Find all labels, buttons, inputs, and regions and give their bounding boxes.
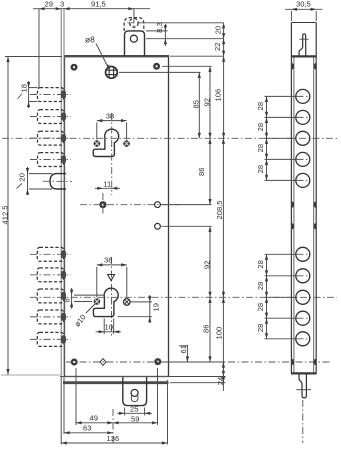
bottom dimension 136	[61, 376, 167, 445]
dimension 86 (lower cylinder axis to screw line)	[202, 297, 212, 362]
corner screw bottom-left	[71, 359, 78, 366]
dimension 11 (hub offset)	[95, 179, 120, 190]
lower cylinder fixing screw left	[94, 298, 101, 305]
svg-text:38: 38	[104, 256, 112, 265]
svg-text:3: 3	[60, 0, 64, 9]
dimension 8,3 (tab hole)	[146, 22, 168, 46]
svg-text:22: 22	[213, 43, 222, 51]
side view top hook (tab edge-on)	[299, 34, 309, 56]
body bottom edge	[60, 376, 169, 378]
svg-text:28: 28	[256, 303, 265, 311]
dimension 100 (lower axis to body bottom)	[215, 297, 225, 376]
dimension chain 28 x4 (top bolt group)	[256, 96, 296, 180]
extension line top-right screw to right	[162, 65, 212, 67]
svg-text:11: 11	[103, 179, 111, 188]
side bolt circle S6	[296, 247, 310, 261]
corner screw top-right	[153, 63, 160, 70]
dimension 92 (screw line to cylinder axis)	[203, 66, 212, 138]
side bolt circle S5	[296, 173, 310, 187]
svg-text:28: 28	[256, 282, 265, 290]
dimension 38 (lower cylinder screws)	[97, 256, 127, 297]
dimension 412,5 (left overall)	[1, 57, 63, 375]
latch bolt	[43, 174, 72, 189]
side bolt circle S7	[296, 269, 310, 283]
side bolt circle S4	[296, 152, 310, 166]
extension line screw head to right	[119, 71, 201, 73]
deadbolt B1 (hidden, top group)	[30, 88, 71, 102]
extension line upper rivet to right	[162, 204, 212, 206]
dimension 25 (bottom tab)	[117, 404, 152, 415]
dimension 22 (tab hole to body)	[213, 39, 225, 57]
deadbolt B6	[30, 268, 71, 282]
svg-text:86: 86	[202, 325, 211, 333]
svg-text:49: 49	[90, 414, 98, 423]
extension line tab hole centre to right	[146, 38, 224, 40]
dimension 106 (body top to cylinder axis)	[214, 56, 226, 138]
dimension 8 (screw vertical offset)	[62, 288, 104, 309]
corner screw top-left	[71, 64, 78, 71]
dimension 10 (stem width)	[96, 319, 122, 335]
dimension 30,5 (side width)	[285, 0, 323, 21]
top tab hidden position (dashed)	[124, 16, 144, 31]
vertical centerline lower cylinder	[111, 257, 113, 336]
svg-text:63: 63	[83, 424, 91, 433]
bottom dimension 49	[76, 368, 113, 425]
datum triangle marker	[108, 275, 115, 281]
side bolt circle S9	[296, 311, 310, 325]
dimension 20 (latch height)	[17, 167, 53, 195]
deadbolt B7	[37, 289, 66, 303]
vertical centerline upper cylinder	[111, 113, 113, 195]
svg-text:208,5: 208,5	[215, 200, 224, 219]
corner screw bottom-right	[154, 358, 161, 365]
side bolt circle S8	[296, 290, 310, 304]
top tab (solid)	[125, 31, 145, 56]
dimension 18 (bolt height)	[18, 81, 38, 108]
spindle hub (hatched)	[99, 201, 106, 208]
centerline below side view	[302, 400, 304, 443]
svg-text:28: 28	[256, 165, 265, 173]
dimension chain 28 x4 (bottom bolt group)	[256, 254, 296, 338]
deadbolt B5 (lower group)	[30, 247, 71, 261]
deadbolt B9	[30, 332, 71, 346]
bottom tab	[123, 377, 147, 406]
svg-text:ø8: ø8	[85, 35, 95, 45]
dimension 24 (screw row to faceplate bottom)	[216, 362, 225, 391]
extension line body top to right	[170, 55, 224, 57]
side bolt circle S3	[296, 131, 310, 145]
extension line bottom screw row to right	[163, 361, 226, 363]
extension line lower rivet to right	[162, 225, 212, 227]
dimension 20 (tab pitch, right)	[214, 23, 226, 39]
side view faceplate outer edges	[291, 23, 316, 374]
svg-text:38: 38	[106, 111, 114, 120]
upper cylinder fixing screw left	[94, 140, 101, 147]
top dimension line 29 / 3 / 91,5	[33, 0, 150, 88]
svg-text:20: 20	[214, 26, 223, 34]
dimension 19 (cylinder depth)	[118, 295, 161, 323]
lock body outline (front view)	[64, 56, 169, 377]
dimension 86 (cylinder axis to upper rivet)	[197, 138, 212, 204]
side view bottom hook (tab edge-on)	[296, 374, 311, 398]
svg-text:28: 28	[256, 324, 265, 332]
side bolt circle S1	[296, 89, 310, 103]
deadbolt B8	[30, 310, 71, 324]
dimension 92 (lower rivet to lower cylinder axis)	[203, 226, 212, 297]
extension line tab dashed-circle centre to right	[139, 22, 224, 24]
label ø8 with leader	[85, 35, 111, 70]
deadbolt B3	[30, 131, 71, 145]
side rivet bumps bottom	[291, 359, 316, 365]
svg-text:28: 28	[256, 102, 265, 110]
hub vertical centerline	[102, 193, 104, 216]
svg-text:61: 61	[179, 345, 188, 353]
svg-text:28: 28	[256, 123, 265, 131]
svg-text:106: 106	[214, 89, 223, 102]
centerline through hub	[80, 204, 180, 206]
svg-text:29: 29	[45, 0, 53, 9]
side rivet bumps mid lower	[291, 223, 316, 229]
side rivet bumps top	[291, 63, 316, 70]
side rivet bumps mid upper	[291, 201, 316, 207]
lower horizontal centerline (lower cylinder axis)	[30, 296, 337, 298]
label diameter leader to lower screw	[73, 304, 96, 329]
upper cylinder fixing screw right	[123, 140, 130, 147]
dimension 85 (head screw to cylinder axis)	[192, 72, 201, 138]
dimension 208,5 (cylinder spacing chain)	[215, 138, 225, 297]
dimension 61 (bolt to screw row)	[179, 345, 189, 362]
svg-text:86: 86	[197, 168, 206, 176]
centerline through bottom screws with diamond node	[66, 359, 330, 366]
svg-text:25: 25	[130, 404, 138, 413]
side view top edge (thick)	[291, 55, 317, 57]
svg-text:19: 19	[152, 303, 161, 311]
svg-text:30,5: 30,5	[296, 0, 311, 8]
svg-text:28: 28	[256, 144, 265, 152]
reference rivet lower (right)	[155, 223, 161, 229]
lower euro cylinder profile	[93, 288, 118, 316]
svg-text:91,5: 91,5	[91, 0, 106, 8]
svg-text:136: 136	[107, 434, 120, 443]
faceplate strip (front view)	[61, 9, 64, 375]
svg-text:10: 10	[105, 323, 113, 332]
faceplate bottom thick edge	[63, 381, 169, 384]
bottom dimension 63	[64, 409, 113, 446]
extension line faceplate bottom edge to right	[170, 382, 226, 384]
wire: left extension of faceplate bottom	[1, 374, 63, 376]
lower cylinder fixing screw right	[124, 299, 131, 306]
svg-text:20: 20	[18, 173, 27, 181]
svg-text:18: 18	[20, 84, 29, 92]
side view bottom edge (thick)	[291, 372, 317, 374]
deadbolt B2	[30, 110, 71, 124]
svg-text:28: 28	[256, 260, 265, 268]
side bolt circle S10	[296, 332, 310, 346]
deadbolt B4	[30, 153, 71, 167]
main horizontal centerline (upper cylinder axis)	[2, 137, 337, 139]
bottom dimension 59	[113, 368, 158, 425]
dimension 38 (upper cylinder screws)	[97, 111, 127, 139]
side view body inner edges	[294, 57, 314, 374]
side bolt circle S2	[296, 110, 310, 124]
upper euro cylinder profile	[93, 129, 118, 156]
screw head ø8	[106, 67, 118, 79]
reference rivet upper (right)	[155, 202, 161, 208]
svg-text:100: 100	[215, 327, 224, 340]
